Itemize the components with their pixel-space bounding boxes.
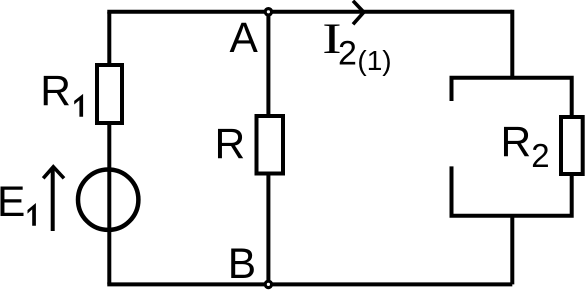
- source E1 circle: [78, 170, 138, 230]
- svg-text:R: R: [501, 119, 532, 166]
- label R1: [40, 68, 83, 117]
- resistor R2 body: [561, 117, 583, 174]
- resistor R body: [257, 116, 284, 174]
- svg-text:R: R: [40, 68, 71, 115]
- wire: top horizontal from left corner to top-right corner: [109, 10, 512, 12]
- svg-text:B: B: [228, 241, 256, 288]
- label E1: [0, 179, 36, 226]
- wire: middle branch from node A through R to node B: [266, 12, 270, 285]
- svg-text:(1): (1): [357, 45, 391, 76]
- wire: center vertical from parallel bottom bar to bottom wire: [510, 216, 514, 285]
- svg-text:R: R: [215, 121, 246, 168]
- node A junction dot: [265, 9, 271, 15]
- arrow for E1 (EMF direction, pointing up): [43, 167, 64, 231]
- wire: left vertical side: [107, 12, 111, 285]
- svg-text:2: 2: [531, 137, 549, 174]
- wire: bottom horizontal: [107, 282, 512, 286]
- resistor R1 body: [97, 65, 122, 123]
- svg-text:E: E: [0, 179, 25, 226]
- current arrow I2(1) on top wire: [353, 1, 364, 25]
- label R2: [501, 119, 550, 174]
- svg-text:A: A: [230, 15, 259, 62]
- wire: parallel section bottom bar with left open stub and right branch up to R2: [452, 166, 572, 215]
- wire: right vertical from top-right corner down to parallel top bar: [510, 10, 514, 78]
- svg-text:2: 2: [338, 34, 357, 72]
- label current I2(1): [322, 15, 391, 76]
- wire: parallel section top bar with left open stub and right branch down to R2: [452, 78, 572, 117]
- node B junction dot: [265, 281, 271, 287]
